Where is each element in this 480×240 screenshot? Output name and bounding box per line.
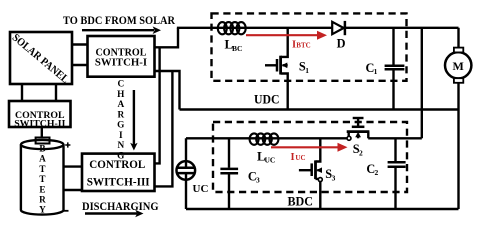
svg-text:T: T — [39, 174, 45, 184]
svg-text:I: I — [291, 152, 295, 163]
svg-text:SOLAR PANEL: SOLAR PANEL — [10, 32, 71, 86]
svg-text:Y: Y — [39, 205, 46, 215]
svg-text:SWITCH-III: SWITCH-III — [87, 176, 151, 188]
svg-text:M: M — [453, 59, 464, 73]
svg-text:UC: UC — [295, 154, 305, 162]
svg-text:BC: BC — [232, 44, 242, 53]
svg-text:BDC: BDC — [288, 195, 314, 209]
svg-text:I: I — [119, 131, 123, 141]
svg-text:C: C — [117, 80, 124, 90]
svg-text:UC: UC — [193, 183, 209, 195]
svg-text:UDC: UDC — [254, 92, 280, 106]
svg-text:BTC: BTC — [296, 42, 310, 50]
svg-text:3: 3 — [256, 176, 260, 185]
svg-text:1: 1 — [374, 67, 378, 76]
svg-text:R: R — [39, 195, 46, 205]
svg-text:SWITCH-I: SWITCH-I — [95, 57, 147, 69]
svg-text:H: H — [117, 90, 125, 100]
svg-text:3: 3 — [332, 173, 336, 182]
svg-text:B: B — [39, 144, 45, 154]
svg-text:E: E — [39, 184, 45, 194]
svg-text:A: A — [39, 154, 46, 164]
svg-text:A: A — [117, 100, 124, 110]
svg-text:G: G — [117, 151, 124, 161]
svg-text:1: 1 — [305, 66, 309, 75]
svg-text:2: 2 — [359, 148, 363, 157]
svg-text:G: G — [117, 121, 124, 131]
svg-text:TO BDC FROM SOLAR: TO BDC FROM SOLAR — [63, 13, 175, 27]
svg-text:T: T — [39, 164, 45, 174]
svg-text:D: D — [337, 37, 346, 51]
svg-text:N: N — [117, 141, 124, 151]
svg-text:SWITCH-II: SWITCH-II — [14, 118, 65, 129]
svg-text:DISCHARGING: DISCHARGING — [82, 201, 159, 213]
svg-text:R: R — [117, 110, 124, 120]
svg-text:2: 2 — [375, 168, 379, 177]
svg-text:UC: UC — [265, 156, 276, 165]
